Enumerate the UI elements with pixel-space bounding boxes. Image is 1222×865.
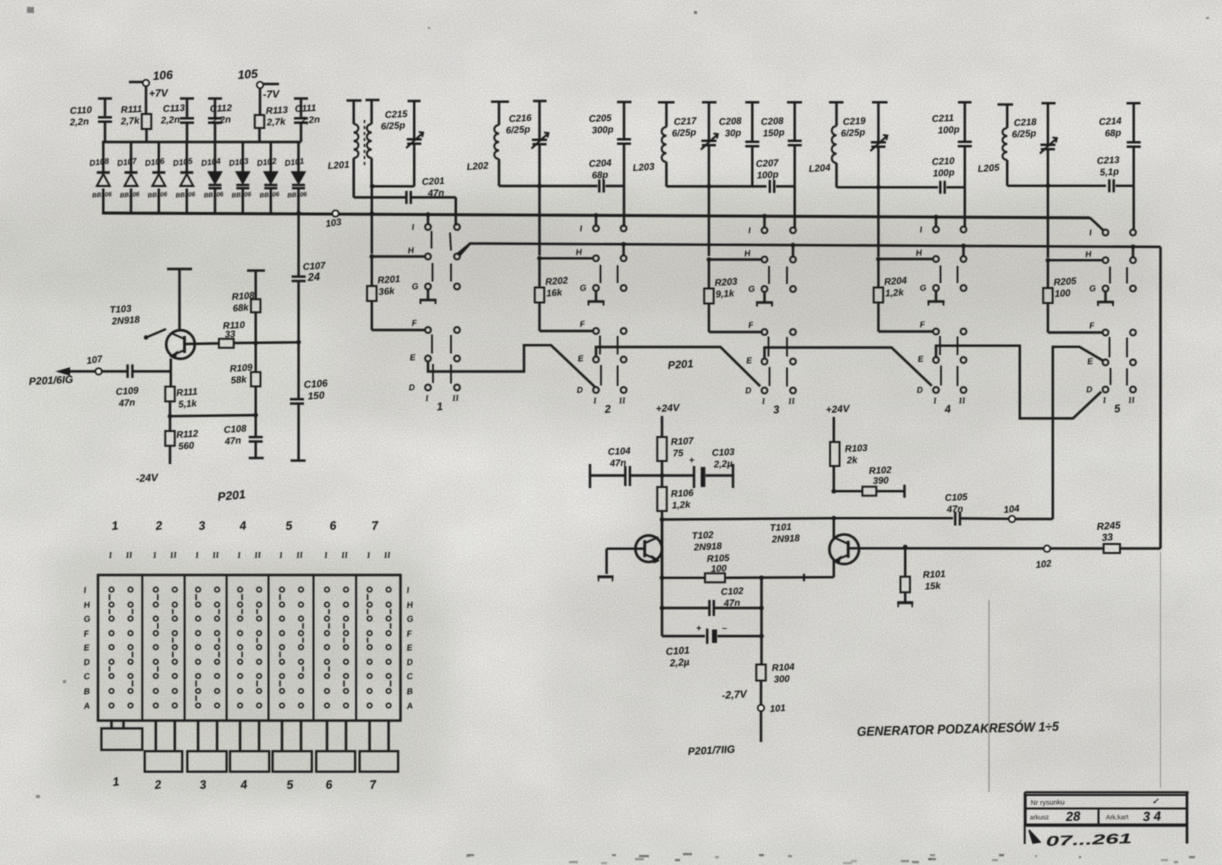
- wire R203 feed vertical: [708, 186, 710, 256]
- node 104: [1003, 503, 1021, 522]
- connector box 6: [316, 721, 355, 792]
- ground section 4: [928, 291, 945, 306]
- junction rail1/wire519: [660, 517, 665, 522]
- svg-text:D: D: [83, 657, 90, 668]
- resistor R107 75: [657, 436, 694, 476]
- wire section 2 F-left: [540, 330, 594, 332]
- svg-text:C216: C216: [509, 113, 533, 125]
- svg-text:R201: R201: [377, 274, 400, 287]
- wire section 4 H-left: [876, 257, 933, 262]
- wire section 4 H-right stub: [961, 244, 966, 256]
- switch P201 section 3 contact D-left: [745, 385, 768, 395]
- wire T103 base to R110: [185, 342, 219, 345]
- switch P201 section 1 contact I-right: [454, 224, 460, 230]
- wire R111 bottom to C108: [170, 413, 258, 418]
- wire loop right vertical: [760, 578, 762, 665]
- svg-text:C204: C204: [589, 158, 613, 170]
- svg-text:2,2µ: 2,2µ: [668, 657, 690, 669]
- ground T102 base: [598, 577, 614, 582]
- svg-text:47n: 47n: [723, 598, 741, 610]
- resistor R201 36k: [367, 257, 401, 331]
- svg-text:2,7k: 2,7k: [266, 117, 287, 129]
- switch P201 section 1 contact G-right: [454, 284, 460, 290]
- svg-text:R104: R104: [772, 662, 796, 674]
- diode D102 BB106: [256, 142, 280, 213]
- label P201/7IIG: [688, 744, 736, 758]
- svg-text:R103: R103: [845, 443, 869, 455]
- switch P201 section 2 contact H-left: [575, 247, 599, 261]
- switch P201 section 5 contact G-right: [1130, 286, 1136, 292]
- diode D105 BB106: [172, 142, 196, 213]
- svg-text:16k: 16k: [546, 287, 563, 299]
- wire section 5 H-left: [1046, 258, 1103, 263]
- diode D108 BB106: [89, 142, 113, 213]
- svg-text:100p: 100p: [938, 124, 960, 136]
- svg-text:R111: R111: [176, 387, 198, 399]
- svg-text:D: D: [406, 657, 413, 668]
- junction bus1/R201 feed: [370, 211, 375, 216]
- wire section1 I-right feed: [455, 197, 457, 225]
- svg-text:R108: R108: [231, 290, 255, 303]
- svg-text:30p: 30p: [725, 128, 742, 140]
- wire R205 feed vertical: [1047, 186, 1049, 258]
- ground R101: [897, 603, 913, 608]
- switch P201 section 4 contact I-left: [919, 224, 939, 234]
- switch P201 section 5 contact D-right: [1130, 387, 1136, 393]
- svg-text:C207: C207: [756, 158, 780, 170]
- svg-text:II: II: [383, 550, 392, 561]
- svg-text:107: 107: [86, 354, 104, 367]
- svg-text:2,2n: 2,2n: [300, 115, 321, 127]
- wire C207 to C206 leg: [776, 185, 795, 187]
- svg-text:150p: 150p: [763, 127, 785, 139]
- wire C205 leg down to contact: [623, 186, 625, 227]
- svg-text:T103: T103: [109, 303, 132, 316]
- svg-text:R112: R112: [176, 428, 199, 441]
- wire C105 line: [834, 517, 953, 519]
- svg-text:103: 103: [325, 217, 343, 230]
- svg-text:BB106: BB106: [259, 191, 280, 199]
- svg-text:C101: C101: [665, 645, 690, 658]
- capacitor C113 2,2n: [160, 99, 194, 143]
- wire node101 down: [760, 711, 762, 742]
- capacitor C105 47n: [945, 492, 1009, 526]
- node 103: [325, 210, 343, 230]
- scan fold line: [989, 552, 1161, 792]
- trimmer capacitor C217 6/25p: [672, 102, 718, 186]
- switch P201 section 3 contact H-left: [744, 248, 768, 262]
- capacitor C106 150: [290, 342, 328, 460]
- svg-text:2N918: 2N918: [110, 315, 140, 328]
- resistor R111 5,1k: [165, 371, 198, 416]
- wire L201 right bottom: [370, 184, 414, 189]
- wire section 5 H-right stub: [1131, 244, 1136, 257]
- switch P201 section 2 contact D-right: [621, 387, 627, 393]
- svg-text:BB106: BB106: [204, 191, 225, 199]
- switch P201 section 1 contact D-right: [454, 385, 460, 391]
- wire section 4 contact I-left stub: [934, 215, 939, 227]
- inductor L205: [977, 105, 1013, 186]
- svg-text:II: II: [253, 550, 262, 561]
- label -24V: [136, 472, 160, 485]
- svg-text:P201/6IG: P201/6IG: [29, 374, 74, 388]
- inductor L204: [808, 102, 843, 187]
- capacitor C205 300p: [589, 102, 632, 186]
- label section 4 wafer numerals: [932, 395, 966, 416]
- svg-text:–: –: [722, 623, 727, 633]
- svg-text:100p: 100p: [933, 167, 955, 179]
- wire C214 leg down to contact: [1132, 186, 1134, 230]
- capacitor C102 47n: [660, 586, 764, 616]
- wire R202 feed vertical: [538, 186, 540, 256]
- svg-text:B: B: [83, 686, 90, 697]
- resistor R111 2,7k: [120, 104, 152, 142]
- switch P201 section 5 contact D-left: [1086, 384, 1109, 394]
- svg-text:T101: T101: [770, 522, 792, 534]
- switch P201 section 1 contact H-right: [454, 254, 460, 260]
- svg-text:47n: 47n: [946, 504, 964, 516]
- wire chain section1 E to section2 D: [428, 345, 596, 387]
- switch P201 section 4 contact I-right: [961, 227, 967, 233]
- wire rail2 to collector: [833, 518, 835, 539]
- switch P201 section 3 contact E-left: [746, 355, 768, 365]
- capacitor C107 24: [292, 260, 327, 342]
- wire R108 chain top: [247, 271, 265, 300]
- wire chain section2 E to section3 D: [596, 347, 760, 386]
- switch P201 section 5 contact F-left: [1089, 320, 1109, 335]
- diode D106 BB106: [144, 142, 168, 213]
- connector box 7: [360, 721, 399, 792]
- svg-text:2,2n: 2,2n: [160, 115, 181, 127]
- svg-text:C217: C217: [674, 116, 698, 128]
- svg-text:+: +: [689, 455, 695, 465]
- switch P201 section 4 contact D-right: [961, 387, 967, 393]
- svg-text:G: G: [411, 281, 419, 292]
- resistor R108 68k: [231, 290, 260, 343]
- svg-text:1,2k: 1,2k: [672, 500, 692, 512]
- resistor R110 33: [219, 320, 246, 348]
- wire C109 to emitter: [132, 370, 170, 372]
- wire section 4 wiper strokes: [940, 266, 958, 387]
- svg-text:-24V: -24V: [136, 472, 160, 485]
- svg-text:5,1k: 5,1k: [178, 398, 198, 410]
- resistor R103 2k: [830, 442, 869, 491]
- svg-text:-7V: -7V: [263, 88, 281, 101]
- resistor R101 15k: [900, 547, 945, 602]
- switch P201 section 3 contact H-right: [790, 257, 796, 263]
- wire section 3 H-left: [707, 257, 762, 262]
- svg-text:II: II: [124, 550, 133, 561]
- switch P201 section 3 contact G-right: [790, 286, 796, 292]
- switch P201 section 3 contact F-left: [748, 320, 768, 335]
- wire C104 to rail: [630, 473, 664, 478]
- wire C206 leg down to contact: [793, 186, 795, 228]
- connector box 2: [145, 721, 183, 792]
- svg-text:✓: ✓: [1152, 797, 1159, 806]
- wire L205 bottom: [1007, 184, 1106, 189]
- svg-text:C104: C104: [608, 446, 632, 458]
- wire L203 bottom: [666, 184, 766, 189]
- svg-text:C102: C102: [721, 586, 745, 598]
- switch P201 section 3 contact I-right: [790, 227, 796, 233]
- svg-text:R202: R202: [545, 275, 569, 288]
- diode D104 BB106: [201, 142, 225, 213]
- switch P201 section 2 contact D-left: [576, 384, 599, 394]
- wire C201 to switch: [411, 197, 456, 225]
- switch P201 section 2 contact E-left: [577, 353, 599, 363]
- capacitor C108 47n: [223, 415, 263, 458]
- svg-text:68k: 68k: [232, 302, 249, 314]
- connector box 3: [187, 721, 226, 792]
- svg-text:D: D: [576, 384, 583, 394]
- svg-text:R113: R113: [266, 105, 289, 117]
- svg-text:C214: C214: [1099, 116, 1123, 128]
- resistor R104 300: [756, 662, 795, 705]
- svg-text:L204: L204: [808, 162, 831, 175]
- svg-text:II: II: [787, 396, 796, 407]
- svg-text:C105: C105: [945, 492, 969, 504]
- svg-text:D: D: [745, 385, 752, 395]
- inductor L201 (transformer): [327, 100, 379, 197]
- svg-text:47n: 47n: [117, 397, 135, 409]
- diode D103 BB106: [228, 142, 252, 213]
- switch P201 section 2 contact I-right: [621, 226, 627, 232]
- label section 1 wafer numerals: [424, 393, 460, 414]
- capacitor C213 5,1p: [1097, 155, 1121, 193]
- wire T102 to T101 (519): [662, 518, 834, 519]
- svg-text:II: II: [618, 395, 627, 406]
- svg-text:4: 4: [943, 404, 951, 417]
- svg-text:100: 100: [1054, 288, 1071, 300]
- svg-text:560: 560: [178, 440, 195, 452]
- svg-text:R204: R204: [884, 275, 908, 288]
- trimmer capacitor C215 6/25p: [381, 101, 424, 186]
- svg-text:6/25p: 6/25p: [841, 127, 866, 139]
- resistor R112 560: [165, 416, 199, 464]
- wire T102 base: [607, 549, 645, 574]
- capacitor C206 150p: [761, 102, 802, 186]
- switch P201 section 1 contact E-right: [454, 356, 460, 362]
- switch P201 section 1 contact F-right: [454, 327, 460, 333]
- switch P201 section 2 contact F-left: [579, 319, 599, 334]
- wire section5 E output: [1053, 347, 1103, 519]
- svg-text:A: A: [82, 700, 90, 711]
- svg-text:BB106: BB106: [175, 191, 196, 199]
- wire section 1 H-left: [370, 254, 426, 259]
- node 102: [1035, 546, 1053, 571]
- resistor R203 9,1k: [704, 260, 738, 333]
- svg-text:D: D: [916, 384, 923, 394]
- svg-text:36k: 36k: [378, 286, 395, 298]
- node 105 (-7V): [237, 67, 280, 115]
- svg-text:2,7k: 2,7k: [120, 116, 141, 128]
- capacitor C111 2,2n: [294, 99, 320, 143]
- svg-text:3 4: 3 4: [1143, 808, 1162, 824]
- svg-text:II: II: [451, 393, 460, 404]
- svg-text:C106: C106: [303, 378, 328, 391]
- capacitor C208 30p: [719, 102, 760, 186]
- svg-text:58k: 58k: [230, 374, 247, 386]
- svg-text:II: II: [957, 395, 966, 406]
- wire C211 leg down to contact: [964, 187, 966, 226]
- svg-text:L202: L202: [466, 160, 489, 173]
- trimmer capacitor C216 6/25p: [506, 101, 549, 186]
- wire section 3 H-right stub: [791, 243, 796, 257]
- svg-text:C111: C111: [295, 103, 317, 115]
- wire section 3 F-left: [709, 331, 762, 333]
- junction R102 tap: [832, 489, 837, 494]
- svg-text:R106: R106: [671, 488, 695, 500]
- switch P201 section 3 contact F-right: [790, 329, 796, 335]
- wire section 1 contact I-left stub: [426, 212, 431, 224]
- svg-text:47n: 47n: [223, 435, 241, 447]
- svg-text:T102: T102: [692, 530, 715, 542]
- switch P201 section 4 contact E-right: [961, 357, 967, 363]
- svg-text:1: 1: [436, 401, 443, 413]
- svg-text:G: G: [579, 282, 587, 293]
- capacitor C214 68p: [1099, 103, 1141, 186]
- capacitor C103 2,2u: [662, 447, 736, 488]
- svg-text:II: II: [211, 550, 220, 561]
- junction emitter divider: [168, 414, 173, 419]
- svg-text:2,2n: 2,2n: [69, 117, 90, 129]
- switch P201 section 4 contact G-left: [919, 282, 939, 293]
- wire emitter to R105: [662, 577, 705, 579]
- wire R204 feed vertical: [877, 187, 879, 256]
- diode D107 BB106: [117, 142, 141, 213]
- wire section 5 wiper strokes: [1110, 267, 1128, 386]
- switch P201 section 1 contact G-left: [411, 281, 431, 292]
- trimmer capacitor C218 6/25p: [1012, 103, 1057, 186]
- wire section 3 contact I-left stub: [762, 214, 767, 227]
- diode D101 BB106: [284, 142, 308, 213]
- junction rail2 wire519: [832, 516, 837, 521]
- node 106 (+7V): [129, 68, 174, 114]
- connector matrix row labels: [82, 585, 414, 711]
- svg-text:C219: C219: [843, 116, 867, 128]
- wire C210 to C211 leg: [947, 186, 965, 188]
- svg-text:2: 2: [603, 404, 611, 417]
- resistor R105 100: [705, 553, 731, 583]
- switch P201 section 3 contact G-left: [748, 283, 768, 294]
- switch P201 section 4 contact H-left: [915, 247, 939, 261]
- svg-text:A: A: [405, 700, 413, 711]
- connector box 1: [101, 721, 142, 789]
- svg-text:BB106: BB106: [287, 191, 308, 199]
- wire T101 emitter down: [833, 560, 835, 577]
- switch P201 section 4 contact F-left: [919, 319, 939, 334]
- trimmer capacitor C219 6/25p: [841, 102, 888, 187]
- wire R201 feed vertical: [371, 186, 373, 254]
- capacitor C112 2,2n: [208, 99, 233, 143]
- switch P201 section 3 contact D-right: [790, 388, 796, 394]
- svg-text:R111: R111: [121, 104, 143, 116]
- svg-text:II: II: [1127, 395, 1136, 406]
- label section 5 wafer numerals: [1101, 395, 1135, 416]
- svg-text:24: 24: [306, 271, 320, 284]
- capacitor C110 2,2n: [69, 99, 112, 143]
- capacitor C211 100p: [932, 102, 972, 187]
- label P201 selector: [667, 358, 693, 372]
- capacitor C201 47n: [406, 176, 444, 204]
- svg-text:II: II: [295, 550, 304, 561]
- svg-text:R205: R205: [1053, 276, 1077, 289]
- svg-text:P201: P201: [217, 487, 247, 504]
- svg-text:2N918: 2N918: [771, 533, 801, 546]
- wire +24V rail1 top: [661, 416, 663, 437]
- svg-text:6/25p: 6/25p: [506, 124, 531, 136]
- svg-text:102: 102: [1035, 558, 1053, 571]
- switch P201 section 1 contact D-left: [408, 382, 431, 392]
- svg-text:BB106: BB106: [231, 191, 252, 199]
- svg-text:100p: 100p: [757, 169, 779, 181]
- svg-text:C205: C205: [589, 113, 613, 125]
- wire varicap top bus: [102, 141, 301, 143]
- switch P201 section 3 contact I-left: [748, 225, 768, 235]
- svg-text:68p: 68p: [1105, 128, 1122, 140]
- switch P201 section 2 contact F-right: [621, 328, 627, 334]
- connector matrix column dividers: [142, 575, 356, 721]
- wire L201 left bottom to C201: [354, 158, 406, 197]
- switch P201 section 2 contact H-right: [621, 255, 627, 261]
- arrow P201/6IG output: [29, 368, 98, 388]
- svg-text:07...261: 07...261: [1046, 830, 1133, 849]
- wire section 2 contact I-left stub: [594, 213, 599, 225]
- svg-text:+24V: +24V: [656, 403, 682, 415]
- wire node107 to C109: [102, 370, 128, 372]
- svg-text:R107: R107: [671, 436, 695, 448]
- svg-text:5,1p: 5,1p: [1100, 167, 1120, 179]
- capacitor C210 100p: [932, 156, 956, 194]
- label +24V rail1: [656, 403, 682, 415]
- svg-text:6/25p: 6/25p: [1012, 128, 1037, 140]
- switch P201 section 5 contact E-right: [1130, 360, 1136, 366]
- wire C102 loop top: [661, 520, 663, 609]
- switch P201 section 2 contact I-left: [579, 223, 599, 233]
- wire C204 to C205 leg: [606, 185, 625, 187]
- switch P201 section 1 contact H-left: [407, 245, 431, 259]
- svg-text:33: 33: [225, 329, 237, 341]
- junction T102 emitter: [660, 576, 665, 581]
- svg-text:D: D: [1086, 384, 1093, 394]
- svg-text:C113: C113: [163, 103, 186, 115]
- svg-text:P201/7IIG: P201/7IIG: [688, 744, 736, 758]
- svg-text:105: 105: [237, 67, 258, 82]
- wire main bus (node 103 line): [102, 213, 1104, 231]
- capacitor C109 47n: [115, 364, 139, 409]
- svg-text:+24V: +24V: [826, 404, 852, 416]
- connector box 5: [273, 721, 312, 792]
- svg-text:L205: L205: [977, 162, 1000, 175]
- svg-text:G: G: [748, 283, 756, 294]
- wire R105 to T101 emitter: [725, 574, 834, 581]
- svg-text:68p: 68p: [592, 170, 609, 182]
- svg-text:104: 104: [1003, 503, 1021, 516]
- svg-text:B: B: [406, 686, 413, 697]
- svg-text:Nr rysunku: Nr rysunku: [1031, 799, 1065, 807]
- junction R101 tap: [903, 545, 908, 550]
- svg-text:28: 28: [1065, 808, 1082, 824]
- svg-text:2,2µ: 2,2µ: [713, 459, 734, 471]
- switch P201 section 5 contact I-left: [1089, 227, 1109, 237]
- svg-text:arkusz: arkusz: [1030, 814, 1049, 821]
- connector box 4: [230, 721, 269, 792]
- svg-text:2k: 2k: [846, 455, 859, 467]
- svg-text:C108: C108: [223, 423, 247, 436]
- wire T101 base right: [848, 547, 1160, 550]
- switch P201 section 5 contact E-left: [1087, 356, 1109, 366]
- switch P201 section 4 contact D-left: [916, 384, 939, 394]
